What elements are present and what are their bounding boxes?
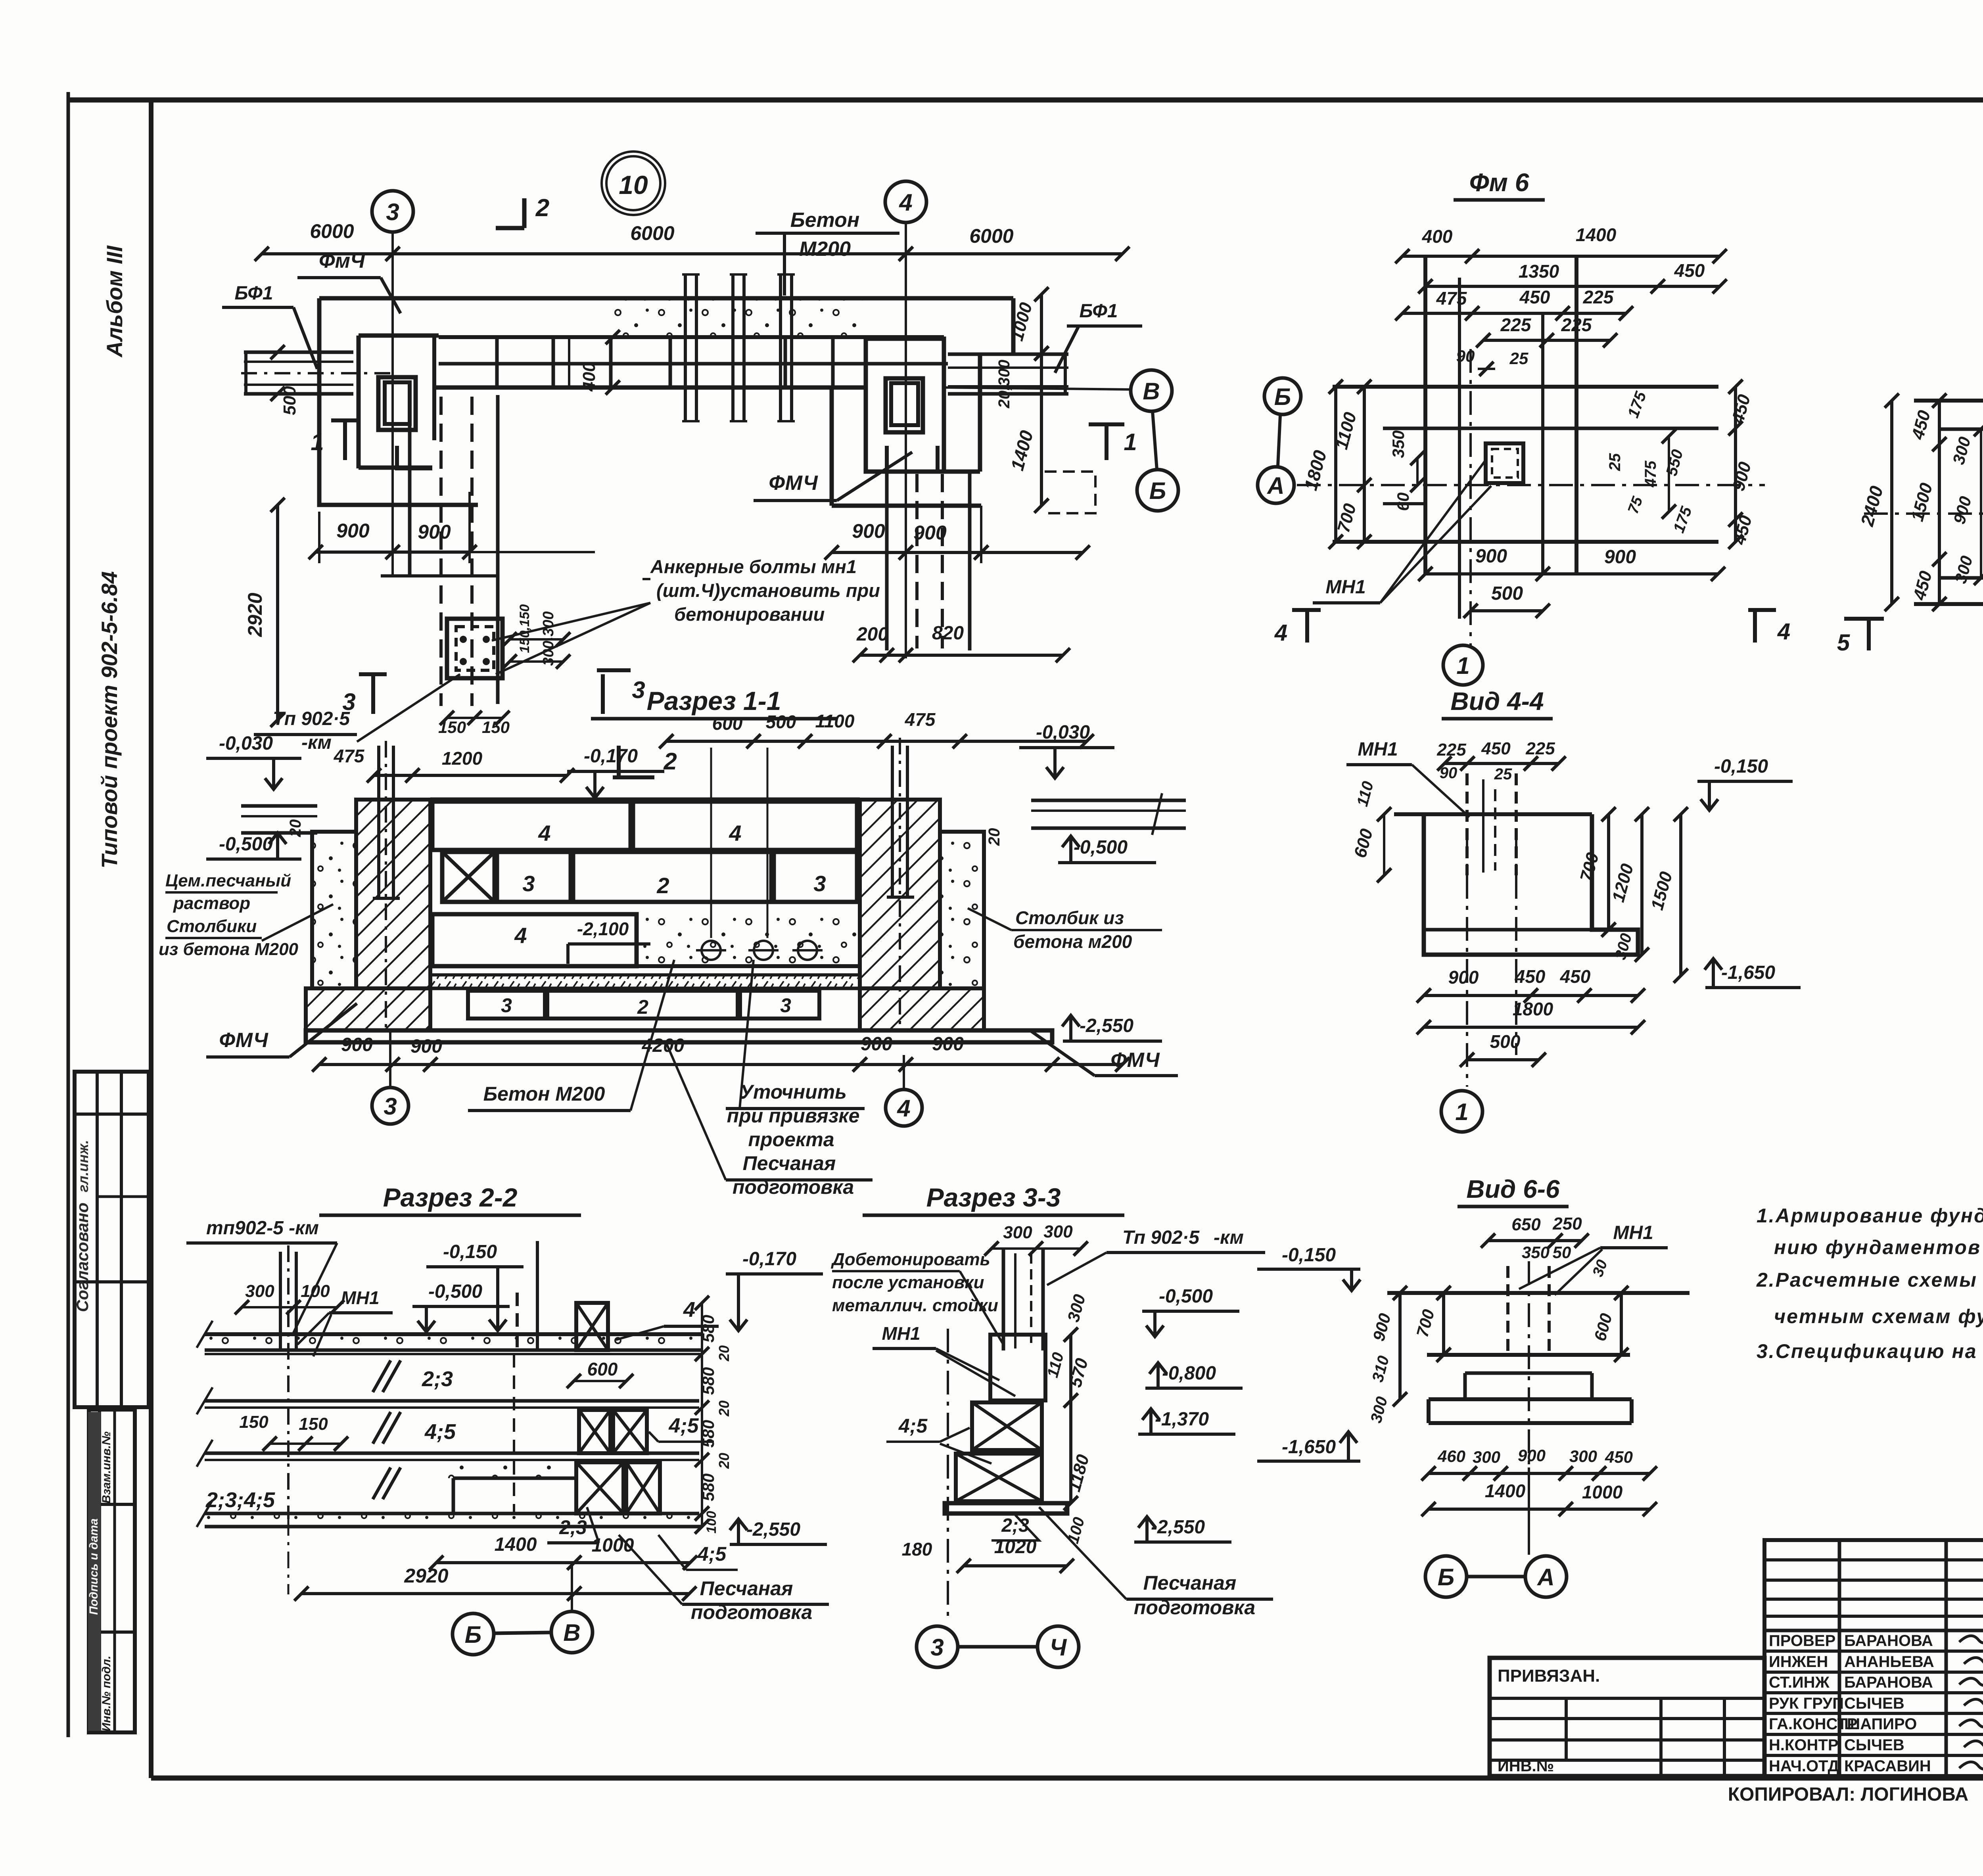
- Fm7 left dim 2400: [1890, 401, 1893, 604]
- razrez2 dashed block joint mid-right: [513, 1354, 515, 1513]
- Vid4-4 anchor bolts dashed: [1465, 773, 1469, 875]
- svg-text:(шт.Ч)установить при: (шт.Ч)установить при: [656, 580, 880, 601]
- floor slab left of pit: [241, 804, 317, 808]
- foundation slab bottom band: [306, 1030, 1052, 1042]
- svg-text:А: А: [1536, 1564, 1554, 1590]
- svg-text:450: 450: [1519, 287, 1550, 307]
- svg-text:5: 5: [1837, 630, 1850, 656]
- svg-text:-0,030: -0,030: [219, 733, 273, 754]
- svg-text:3: 3: [342, 689, 355, 715]
- Fm6 anchor bolt pocket dashed: [1486, 443, 1523, 483]
- left anchor stand pipe: [377, 746, 380, 898]
- razrez2 right dim column 580: [701, 1303, 703, 1527]
- svg-text:900: 900: [1518, 1446, 1546, 1465]
- dim 1400 rotated right: [1040, 353, 1043, 506]
- svg-text:460: 460: [1437, 1447, 1465, 1466]
- left foundation step rectangle: [357, 336, 361, 468]
- right foundation FM4 plate: [866, 339, 944, 472]
- svg-text:20: 20: [716, 1453, 732, 1469]
- Fm6 axis circle 1 bottom: [1443, 645, 1483, 685]
- extension lines from dims to bolts: [710, 748, 712, 938]
- svg-text:900: 900: [1475, 546, 1507, 567]
- svg-text:580: 580: [699, 1367, 717, 1395]
- pit bottom hatched band left: [306, 988, 430, 1030]
- Fm7 left dims 450 1500 450: [1938, 401, 1941, 604]
- top wall band plan lines: [319, 296, 1013, 301]
- Vid4-4 dim 1500: [1679, 814, 1682, 976]
- anchor bolts plan detail outer: [447, 619, 502, 678]
- Vid4-4 profile outline: [1394, 812, 1592, 816]
- top dimension line 6000x3: [262, 252, 1122, 255]
- dims 200 820 below right trench: [860, 654, 1063, 657]
- svg-text:820: 820: [932, 623, 964, 644]
- svg-text:бетона м200: бетона м200: [1013, 931, 1132, 952]
- razrez2 X block top right: [576, 1303, 608, 1350]
- razrez3 X block row1: [972, 1402, 1042, 1450]
- svg-text:СТ.ИНЖ: СТ.ИНЖ: [1769, 1674, 1830, 1691]
- svg-text:3: 3: [501, 994, 512, 1017]
- svg-text:4: 4: [1777, 619, 1790, 645]
- razrez2 X blocks middle rows: [579, 1410, 610, 1453]
- svg-text:4;5: 4;5: [668, 1414, 699, 1437]
- svg-text:ФМЧ: ФМЧ: [1110, 1049, 1160, 1072]
- razrez2 wall top band with stipple: [205, 1332, 702, 1336]
- svg-text:-2,550: -2,550: [1151, 1517, 1205, 1538]
- svg-text:ИНВ.№: ИНВ.№: [1498, 1757, 1554, 1775]
- svg-text:350: 350: [1522, 1243, 1550, 1262]
- section marker 2 top: [522, 198, 527, 228]
- section marker 3 right: [601, 674, 605, 714]
- svg-text:МН1: МН1: [1325, 577, 1365, 598]
- svg-text:2;3: 2;3: [422, 1367, 453, 1391]
- svg-text:2: 2: [637, 996, 648, 1018]
- svg-text:БАРАНОВА: БАРАНОВА: [1844, 1632, 1933, 1650]
- svg-text:1.Армирование фундаментов Фм: 1.Армирование фундаментов Фм 6 и ФМ 7 ан…: [1757, 1205, 1983, 1227]
- razrez3 axis centerline: [947, 1329, 949, 1618]
- razrez3 bottom slab: [945, 1503, 1067, 1513]
- trench below right foundation: [885, 472, 889, 650]
- privyazan table lines: [1490, 1697, 1764, 1700]
- grid axis 3 circle: [372, 191, 413, 232]
- Vid4-4 dim 1800: [1424, 1026, 1638, 1029]
- svg-text:475: 475: [1642, 460, 1659, 487]
- svg-text:25: 25: [1494, 765, 1512, 783]
- svg-text:100: 100: [704, 1511, 719, 1534]
- svg-text:150,150: 150,150: [517, 604, 532, 653]
- svg-text:Уточнить: Уточнить: [740, 1081, 847, 1103]
- svg-text:МН1: МН1: [882, 1323, 920, 1344]
- svg-text:-0,150: -0,150: [1282, 1245, 1336, 1266]
- section marker 3 left bottom: [371, 674, 375, 714]
- Fm6 top dim row4 225 225: [1483, 339, 1610, 342]
- svg-text:150: 150: [438, 718, 466, 737]
- section marker 1 left: [343, 420, 347, 460]
- section marker 2 bottom: [617, 746, 621, 777]
- svg-text:Разрез 2-2: Разрез 2-2: [383, 1183, 518, 1212]
- svg-text:150: 150: [482, 718, 510, 737]
- svg-text:гл.инж.: гл.инж.: [75, 1140, 91, 1192]
- privyazan box: [1490, 1658, 1764, 1776]
- svg-text:300,300: 300,300: [540, 611, 557, 666]
- svg-text:250: 250: [1552, 1214, 1582, 1233]
- svg-text:2: 2: [663, 748, 677, 775]
- signature table named rows: [1764, 1650, 1983, 1653]
- svg-text:2;3;4;5: 2;3;4;5: [205, 1488, 275, 1512]
- svg-text:Б: Б: [1438, 1564, 1454, 1590]
- svg-text:МН1: МН1: [1358, 739, 1398, 760]
- svg-text:В: В: [563, 1619, 580, 1646]
- Fm7 axis A horizontal dash-dot: [1864, 512, 1983, 515]
- svg-text:400: 400: [579, 362, 599, 392]
- svg-text:4: 4: [683, 1298, 695, 1322]
- block row1 slab 4 left: [432, 802, 631, 850]
- razrez2 dims 1400 1000: [436, 1561, 690, 1564]
- svg-text:из бетона М200: из бетона М200: [159, 940, 299, 959]
- margin inventory dark smudge strip: [88, 1412, 101, 1731]
- svg-text:КОПИРОВАЛ: ЛОГИНОВА: КОПИРОВАЛ: ЛОГИНОВА: [1728, 1784, 1969, 1805]
- svg-text:200: 200: [856, 624, 888, 645]
- Vid6-6 left dims 900 700 310 300: [1398, 1293, 1402, 1399]
- Fm6 section marker 4 left: [1305, 610, 1309, 643]
- svg-text:-0,170: -0,170: [742, 1249, 796, 1270]
- Vid4-4 axis circle 1: [1441, 1091, 1482, 1132]
- section marker 1 right: [1105, 424, 1108, 460]
- svg-text:Типовой проект 902-5-6.84: Типовой проект 902-5-6.84: [97, 571, 122, 868]
- svg-text:900: 900: [336, 520, 370, 542]
- Fm7 section marker 5 left: [1867, 619, 1871, 650]
- svg-text:20: 20: [287, 819, 304, 838]
- svg-text:300: 300: [1043, 1222, 1073, 1241]
- svg-text:600: 600: [712, 713, 743, 734]
- Fm6 right dims 450 900 450: [1734, 387, 1737, 542]
- block row3 4 with step: [432, 914, 637, 966]
- pit floor line: [430, 964, 860, 968]
- svg-text:1400: 1400: [495, 1534, 537, 1555]
- svg-text:тп902-5 -км: тп902-5 -км: [206, 1218, 319, 1239]
- Fm6 left dim 1800: [1334, 387, 1337, 542]
- svg-text:4: 4: [729, 821, 741, 846]
- svg-text:150: 150: [299, 1414, 328, 1434]
- Fm6 bottom dims 900 900: [1425, 572, 1718, 575]
- svg-text:НАЧ.ОТД: НАЧ.ОТД: [1769, 1757, 1839, 1775]
- razrez2 dim 2920: [301, 1592, 689, 1595]
- svg-text:Разрез 1-1: Разрез 1-1: [647, 686, 781, 715]
- razrez2 X blocks bottom: [576, 1462, 623, 1513]
- svg-text:АНАНЬЕВА: АНАНЬЕВА: [1844, 1653, 1934, 1671]
- grid circle 3 below section: [372, 1088, 408, 1124]
- Fm6 grid circle A: [1258, 467, 1294, 503]
- BF1 beam right in plan: [948, 353, 1068, 356]
- svg-text:Б: Б: [1274, 384, 1291, 410]
- svg-text:Н.КОНТР: Н.КОНТР: [1769, 1736, 1839, 1754]
- svg-text:четным схемам фундаментов ФМ2: четным схемам фундаментов ФМ2 и ФМ3 соот…: [1774, 1305, 1983, 1327]
- svg-text:СЫЧЕВ: СЫЧЕВ: [1844, 1736, 1904, 1754]
- svg-text:-0,500: -0,500: [1074, 837, 1128, 858]
- Vid4-4 dim 1200: [1640, 814, 1644, 955]
- block row1 slab 4 right: [633, 802, 857, 850]
- right foundation step below pier: [887, 446, 938, 472]
- trench break line: [381, 574, 498, 577]
- svg-text:СЫЧЕВ: СЫЧЕВ: [1844, 1695, 1904, 1712]
- right pier square inner: [891, 383, 918, 425]
- Vid4-4 dim 500: [1467, 1058, 1539, 1061]
- Fm6 bottom dim 500: [1471, 609, 1543, 612]
- anchor bolt circles in section: [702, 941, 721, 960]
- svg-text:Столбик из: Столбик из: [1015, 907, 1124, 928]
- svg-text:225: 225: [1500, 315, 1532, 335]
- svg-text:475: 475: [905, 709, 936, 730]
- right anchor stand pipe: [891, 746, 894, 897]
- signature table columns: [1838, 1540, 1841, 1776]
- svg-text:4;5: 4;5: [898, 1415, 928, 1437]
- svg-text:500: 500: [1491, 583, 1523, 604]
- svg-text:Альбом III: Альбом III: [102, 245, 127, 358]
- svg-text:1100: 1100: [815, 711, 855, 731]
- svg-text:3: 3: [813, 871, 826, 896]
- svg-text:Тп 902·5: Тп 902·5: [1122, 1227, 1200, 1248]
- svg-text:Б: Б: [465, 1621, 481, 1648]
- right slab break mark: [1152, 793, 1162, 835]
- razrez3 axis circles 3 and 4: [917, 1626, 958, 1667]
- right pier square outer: [886, 378, 923, 432]
- svg-text:-0,500: -0,500: [1159, 1286, 1213, 1307]
- svg-text:900: 900: [852, 520, 885, 542]
- svg-text:6000: 6000: [630, 222, 674, 244]
- svg-text:20: 20: [716, 1400, 732, 1417]
- svg-text:нию фундаментов Фм2 и Фм3 соот: нию фундаментов Фм2 и Фм3 соответственно…: [1774, 1236, 1983, 1258]
- svg-text:1350: 1350: [1519, 261, 1559, 282]
- svg-text:2.Расчетные схемы фундаментов: 2.Расчетные схемы фундаментов ФМ6 и ФМ7 …: [1756, 1269, 1983, 1291]
- svg-text:6000: 6000: [969, 225, 1013, 247]
- Vid6-6 pedestal dashed outline: [1506, 1266, 1509, 1355]
- Vid6-6 step profile lines: [1427, 1353, 1630, 1357]
- dim 1000 rotated right: [1040, 294, 1043, 353]
- svg-text:900: 900: [418, 521, 451, 543]
- section 1-1 top dims 600 500 1100 475: [666, 740, 1087, 743]
- svg-text:2: 2: [656, 873, 669, 898]
- Vid6-6 top line: [1387, 1291, 1690, 1295]
- svg-text:650: 650: [1511, 1215, 1541, 1234]
- svg-text:500: 500: [766, 712, 796, 732]
- title block outer box: [1764, 1540, 1983, 1776]
- svg-text:КРАСАВИН: КРАСАВИН: [1844, 1757, 1931, 1775]
- right foundation pit outline: [978, 353, 982, 472]
- pit bottom hatched band right: [860, 988, 984, 1030]
- svg-text:3: 3: [780, 994, 791, 1017]
- dims 900 900 right foundation: [832, 551, 1083, 554]
- svg-text:1800: 1800: [1513, 999, 1553, 1019]
- svg-text:Тп 902·5: Тп 902·5: [273, 708, 350, 729]
- svg-text:4: 4: [897, 1095, 910, 1122]
- svg-text:-2,550: -2,550: [746, 1519, 800, 1540]
- svg-text:1400: 1400: [1485, 1481, 1526, 1501]
- svg-text:Цем.песчаный: Цем.песчаный: [165, 871, 291, 890]
- svg-text:20: 20: [716, 1345, 732, 1362]
- svg-text:1400: 1400: [1576, 224, 1617, 245]
- svg-text:Ч: Ч: [1050, 1634, 1067, 1661]
- dashed step right trench: [1045, 472, 1095, 513]
- svg-text:ФМЧ: ФМЧ: [219, 1029, 268, 1052]
- svg-text:300: 300: [1569, 1447, 1597, 1466]
- drawing frame top border: [68, 98, 1983, 103]
- Fm7 plan horizontal band: [1914, 399, 1983, 403]
- svg-text:6000: 6000: [310, 220, 354, 242]
- grid circle 4 below section: [886, 1090, 922, 1126]
- svg-text:450: 450: [1515, 966, 1546, 987]
- Fm6 plan horizontal band lines: [1333, 385, 1718, 389]
- left foundation step below pier: [397, 446, 432, 468]
- razrez2 step outline row3: [453, 1477, 576, 1480]
- svg-text:-1,370: -1,370: [1155, 1409, 1209, 1430]
- svg-text:2920: 2920: [404, 1565, 448, 1587]
- svg-text:350: 350: [1389, 430, 1408, 458]
- svg-text:10: 10: [619, 170, 648, 199]
- svg-text:4: 4: [1274, 620, 1287, 646]
- dims 900 900 under left foundation: [316, 551, 470, 554]
- grid axis 4 line: [905, 223, 907, 658]
- Fm6 grid circle B: [1264, 378, 1301, 414]
- svg-text:900: 900: [932, 1034, 964, 1055]
- svg-text:1: 1: [311, 429, 324, 455]
- svg-text:450: 450: [1605, 1448, 1633, 1466]
- Fm6 top dim row2 1350 450: [1425, 285, 1720, 288]
- trench dashed lines below left foundation: [408, 395, 412, 576]
- Fm6 section marker 4 right: [1753, 610, 1757, 643]
- svg-text:Подпись и дата: Подпись и дата: [87, 1518, 100, 1615]
- razrez3 X block row2: [956, 1454, 1042, 1501]
- svg-text:ФмЧ: ФмЧ: [319, 249, 365, 272]
- svg-text:раствор: раствор: [173, 894, 250, 913]
- anchor bolts dots: [460, 636, 467, 643]
- margin approval table upper: [75, 1072, 149, 1407]
- svg-text:В: В: [1143, 378, 1160, 405]
- svg-text:проекта: проекта: [748, 1128, 834, 1151]
- razrez2 break marks left: [197, 1321, 213, 1348]
- razrez2 bottom stipple strip: [205, 1515, 702, 1525]
- grid axis 3 line: [391, 232, 394, 576]
- svg-text:90: 90: [1440, 764, 1458, 782]
- drawing frame bottom border: [151, 1776, 1983, 1781]
- bottom dims row section 1-1: [319, 1063, 1122, 1066]
- razrez2 upper dashed column: [516, 1293, 519, 1350]
- concrete stipple zone row3: [639, 914, 860, 966]
- svg-text:50: 50: [1553, 1243, 1571, 1262]
- wall band stipple strip: [607, 300, 863, 335]
- svg-text:-2,100: -2,100: [577, 919, 629, 939]
- svg-text:900: 900: [1448, 967, 1479, 988]
- block row2 2 middle: [573, 852, 771, 902]
- svg-text:ФМЧ: ФМЧ: [769, 472, 818, 495]
- razrez2 axis circles B and V: [453, 1613, 494, 1655]
- left foundation pier square outer: [378, 377, 416, 430]
- svg-text:1020: 1020: [994, 1536, 1037, 1558]
- svg-text:Инв.№ подл.: Инв.№ подл.: [100, 1655, 113, 1731]
- signature table empty rows: [1764, 1558, 1983, 1561]
- svg-text:1200: 1200: [442, 748, 483, 769]
- Fm6 axis A dash-dot horizontal: [1297, 484, 1765, 486]
- pit right hatched wall: [860, 800, 940, 988]
- left foundation FM4 outer outline: [319, 298, 478, 505]
- wall band joint double mid: [568, 337, 570, 387]
- floor slab right of pit: [1031, 799, 1186, 802]
- svg-text:450: 450: [1560, 966, 1591, 987]
- Vid6-6 dims 1400 1000: [1429, 1508, 1650, 1511]
- svg-text:бетонировании: бетонировании: [674, 604, 825, 625]
- svg-text:М200: М200: [799, 238, 851, 261]
- svg-text:Песчаная: Песчаная: [700, 1577, 793, 1600]
- svg-text:1: 1: [1456, 652, 1469, 679]
- Fm6 top dim row1 400 1400: [1402, 255, 1720, 258]
- Vid6-6 right dim 600: [1620, 1293, 1623, 1355]
- Vid6-6 axis circles B and A: [1425, 1556, 1467, 1597]
- svg-text:ПРОВЕР: ПРОВЕР: [1769, 1632, 1835, 1650]
- svg-text:1000: 1000: [1582, 1482, 1623, 1502]
- razrez2 stipple band row3: [448, 1461, 576, 1478]
- svg-text:Вид 4-4: Вид 4-4: [1450, 687, 1544, 715]
- beam axis dash line: [241, 372, 397, 374]
- svg-text:3.Спецификацию на фундаменты Ф: 3.Спецификацию на фундаменты Фм6 и Фм7см…: [1757, 1340, 1983, 1362]
- beam right axis line to grid B: [944, 387, 1131, 389]
- rebar dowels through wall: [684, 274, 687, 421]
- left foundation pier square inner: [385, 382, 410, 424]
- svg-text:БФ1: БФ1: [235, 283, 273, 304]
- svg-text:580: 580: [699, 1420, 717, 1448]
- svg-text:-2,550: -2,550: [1080, 1015, 1133, 1036]
- svg-text:20: 20: [986, 828, 1003, 846]
- svg-text:1: 1: [1124, 429, 1137, 455]
- svg-text:МН1: МН1: [341, 1287, 379, 1308]
- block row2 X block: [442, 852, 495, 902]
- svg-text:Столбики: Столбики: [167, 917, 257, 936]
- svg-text:180: 180: [902, 1539, 932, 1559]
- svg-text:500: 500: [1490, 1031, 1521, 1052]
- svg-text:4: 4: [538, 821, 550, 846]
- svg-text:Добетонировать: Добетонировать: [830, 1250, 990, 1269]
- svg-text:Взам.инв.№: Взам.инв.№: [100, 1431, 113, 1503]
- svg-text:475: 475: [334, 746, 365, 766]
- svg-text:-0,030: -0,030: [1036, 722, 1090, 743]
- Vid4-4 axis centerline: [1466, 833, 1468, 1087]
- leader lines from MN1 label to bolts: [492, 603, 650, 641]
- svg-text:20,300: 20,300: [995, 360, 1013, 409]
- svg-text:2920: 2920: [244, 593, 266, 637]
- svg-text:2,3: 2,3: [559, 1516, 587, 1538]
- wall band block joints: [495, 337, 499, 387]
- svg-text:Бетон: Бетон: [790, 209, 859, 232]
- svg-text:-0,500: -0,500: [219, 834, 273, 855]
- Vid4-4 dim 700: [1607, 814, 1610, 930]
- bottom row blocks 3 2 3: [468, 991, 545, 1019]
- vertical dim 2920: [276, 505, 279, 720]
- svg-text:100: 100: [301, 1281, 330, 1301]
- BF1 beam left in plan: [244, 351, 353, 354]
- grid axis 4 circle: [885, 181, 926, 223]
- svg-text:150: 150: [239, 1412, 268, 1432]
- anchor detail dim lines right: [510, 638, 563, 641]
- svg-text:4;5: 4;5: [697, 1543, 727, 1565]
- svg-text:3: 3: [632, 677, 645, 703]
- pit right concrete column stippled: [940, 832, 984, 988]
- svg-text:-км: -км: [1214, 1227, 1244, 1248]
- svg-text:25: 25: [1509, 349, 1528, 368]
- svg-text:-1,650: -1,650: [1282, 1437, 1336, 1458]
- svg-text:3: 3: [930, 1634, 944, 1661]
- sand hatch under floor: [430, 975, 860, 988]
- svg-text:25: 25: [1606, 453, 1624, 471]
- svg-text:4: 4: [899, 189, 912, 216]
- svg-text:Б: Б: [1149, 478, 1166, 504]
- svg-text:3: 3: [386, 199, 399, 225]
